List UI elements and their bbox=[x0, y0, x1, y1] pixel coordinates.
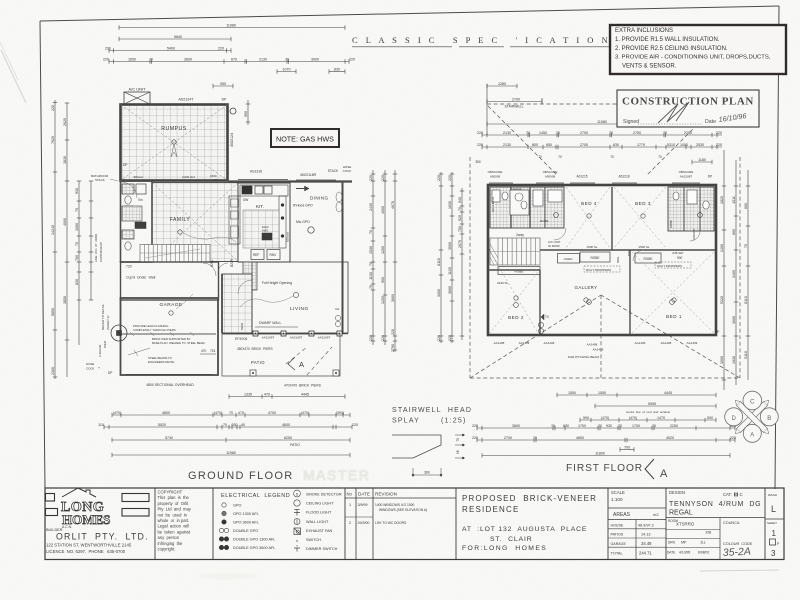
gf cupboard under stair bbox=[121, 262, 219, 300]
ff dashed roof outline bbox=[470, 104, 740, 378]
ff sub dim 700 bbox=[620, 445, 634, 451]
page border top bbox=[40, 6, 779, 21]
extra inclusions note box bbox=[610, 25, 786, 74]
ff bottom dim row2 bbox=[472, 424, 736, 430]
ff stairs bbox=[490, 233, 540, 265]
gf utility zone (laundry/wc/stairs) bbox=[121, 181, 153, 262]
gf sub dim 1070 bbox=[277, 67, 296, 73]
ff interior diagonals bbox=[490, 187, 714, 333]
gf stairs under family bbox=[140, 245, 210, 263]
gf garage bbox=[119, 294, 218, 375]
gf hall corridor (hatched) bbox=[222, 274, 252, 333]
ff robes band bbox=[498, 251, 684, 275]
ff section arrow bbox=[645, 459, 654, 479]
copyright column bbox=[158, 490, 192, 552]
ff sub dim 1180 bbox=[692, 158, 712, 164]
gf patio bbox=[222, 334, 340, 376]
gf downpipe circle bbox=[230, 108, 236, 114]
gf dim 950 right bbox=[244, 100, 250, 125]
scan artifact top-left bbox=[1, 50, 26, 103]
gf top dim chain row bbox=[103, 57, 355, 63]
title block dividers bbox=[155, 488, 765, 560]
ff bottom dim 1550/1550/4445 bbox=[557, 391, 716, 397]
gf bottom dim row2 bbox=[112, 411, 350, 417]
gf left dim chain 3 bbox=[75, 181, 81, 345]
ff door arcs bbox=[554, 228, 566, 240]
ff bottom dim 5995 bbox=[595, 402, 716, 408]
signature bbox=[658, 102, 689, 123]
gf right dim chain 2 bbox=[381, 170, 387, 345]
gf living bbox=[235, 262, 348, 341]
gf right dim chain 1 bbox=[369, 170, 375, 345]
ff bath right (hatched) bbox=[668, 187, 714, 240]
sheet column bbox=[765, 493, 784, 558]
gf patio piers row bbox=[222, 331, 348, 351]
gf sub dim 950 bbox=[213, 82, 233, 88]
ff bed1 bbox=[630, 250, 682, 335]
gf right wall bbox=[342, 181, 344, 334]
ff window labels bbox=[488, 170, 713, 179]
ff bed3 bbox=[635, 201, 651, 218]
gf garage door bbox=[126, 374, 212, 376]
family room bbox=[152, 183, 238, 262]
compass rose bbox=[719, 384, 785, 450]
ff dim 2700 bbox=[487, 97, 542, 103]
gf bottom dim 11980 bbox=[112, 451, 350, 457]
ff bottom dim row3 bbox=[472, 436, 736, 442]
ff bottom window labels bbox=[494, 330, 720, 359]
design block bbox=[666, 490, 765, 560]
gf living/dining divider bbox=[289, 183, 291, 250]
gf right dim chain 3 bbox=[391, 170, 397, 352]
gf bottom dim row4 bbox=[112, 436, 350, 442]
ground floor A/C unit bbox=[124, 87, 150, 105]
ff bottom dim 11800 bbox=[482, 451, 730, 457]
revision table bbox=[345, 488, 456, 560]
kitchen bbox=[229, 183, 290, 262]
ff left dim chain 2 bbox=[448, 172, 454, 343]
ff left dim chain 3 bbox=[458, 188, 464, 340]
ff duct droppers bbox=[584, 262, 691, 272]
gf top dim 5400 row bbox=[105, 46, 231, 52]
ff bed2 bbox=[488, 270, 550, 335]
ff right dim chain 3 bbox=[744, 170, 750, 380]
ff bed4 bbox=[581, 187, 612, 250]
ff light circles bbox=[514, 303, 519, 308]
scan smudge below title block bbox=[198, 573, 258, 580]
ff middle wall bbox=[488, 249, 716, 251]
electrical legend bbox=[219, 490, 342, 551]
builder name bbox=[46, 525, 149, 554]
construction plan stamp bbox=[617, 90, 759, 127]
gf bottom dim row3 bbox=[98, 423, 358, 429]
title block frame bbox=[45, 488, 784, 560]
ff right dim chain 2 bbox=[732, 160, 738, 385]
gf top dim 11980 bbox=[119, 23, 345, 29]
ff right dim chain 1 bbox=[720, 150, 726, 390]
note gas hws box bbox=[271, 129, 339, 147]
ff dim 1280 bbox=[487, 82, 517, 88]
proposed residence block bbox=[462, 494, 597, 552]
rumpus room bbox=[121, 105, 235, 183]
scan artifact bottom-right bbox=[700, 570, 779, 571]
ff outer walls bbox=[488, 185, 716, 335]
scale + areas block bbox=[608, 490, 666, 560]
gf door arc living entry bbox=[203, 263, 216, 276]
gf left dim chain 2 bbox=[63, 103, 69, 377]
gf left dim chain 4 bbox=[89, 181, 94, 300]
gf left dim chain 1 bbox=[51, 100, 57, 379]
page border left bbox=[40, 21, 45, 488]
gf top dim 5840 bbox=[119, 35, 231, 41]
ff ensuite bath left (hatched) bbox=[490, 187, 564, 228]
gf top wall of dining/kitchen with windows bbox=[228, 180, 353, 182]
ff top dim row2 bbox=[477, 143, 722, 149]
gf bottom dim 1335/470/4445 bbox=[229, 392, 345, 398]
ff left dim chain 1 bbox=[437, 172, 443, 343]
gf ref/pan bbox=[251, 250, 264, 260]
page border right bbox=[775, 6, 779, 489]
stairwell head splay detail bbox=[392, 407, 472, 477]
gf pier detail circle bbox=[111, 325, 127, 341]
ff top windows bbox=[489, 182, 700, 184]
ff top dim row1 bbox=[477, 131, 722, 137]
ff bottom ticks row bbox=[580, 416, 716, 422]
gf bathroom tiled cell bbox=[121, 182, 142, 221]
builder logo bars bbox=[46, 494, 150, 517]
long homes logo bbox=[61, 488, 110, 527]
ff top dim 11980 bbox=[487, 120, 717, 126]
gf sub dim 830 bbox=[329, 67, 345, 73]
